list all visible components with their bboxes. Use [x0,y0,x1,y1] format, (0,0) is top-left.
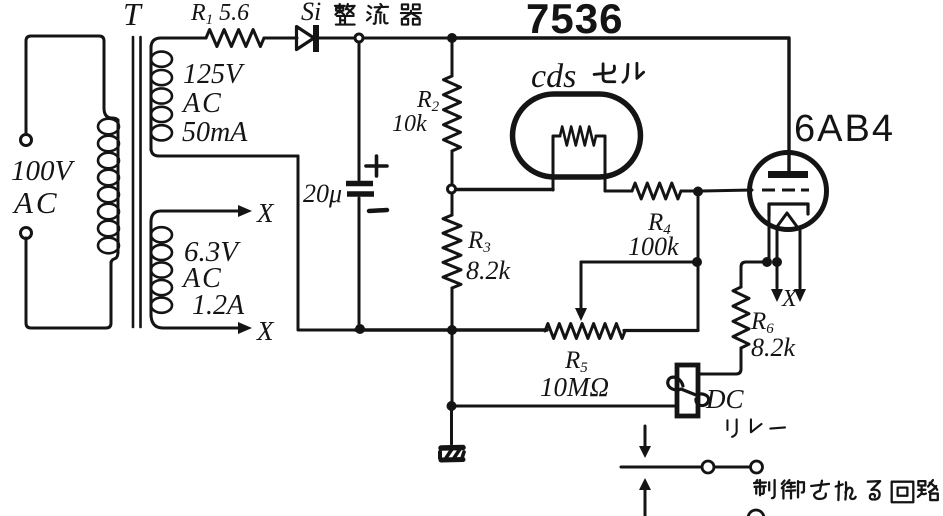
node C (divider) [448,185,456,193]
secondary 125V winding [151,52,172,67]
secondary 6.3V winding [151,227,172,242]
resistor R5 [545,324,625,339]
resistor R2 [444,76,461,151]
label + (C1) [366,156,387,176]
secondary 125V line [150,46,153,150]
svg-text:6AB4: 6AB4 [794,108,895,150]
wire nodeF down [697,196,700,330]
node D (cap bottom) [355,324,365,334]
contact circle 1 [702,461,714,473]
wire HV return drop [298,156,359,330]
secondary 125V bottom corner [151,148,298,156]
arrow X heater bottom [238,322,252,334]
label seiryuki (rectifier) [335,4,355,25]
wire bottom rail [355,328,547,331]
node A (cap tap) [355,34,363,42]
svg-text:T: T [123,0,143,32]
svg-text:DC: DC [705,384,744,414]
tube grid dashes [762,189,809,192]
arrow heater 2 [794,289,806,302]
label controlled circuit [754,480,775,498]
arrow X heater top [238,205,252,217]
wire R2-nodeC [451,151,454,184]
svg-text:X: X [256,198,275,228]
arrow wiper [575,308,587,321]
diode D1 Si [297,27,315,50]
cds resistor element [560,127,596,146]
svg-text:8.2k: 8.2k [751,333,796,362]
wire cathode-R6 [741,262,767,287]
wire R3-bottomrail [451,288,454,330]
svg-text:1.2A: 1.2A [192,290,245,321]
svg-text:X: X [781,286,798,312]
wire wiper run [581,261,693,264]
wire nodeF-grid [702,190,752,191]
label - (C1) [369,210,387,211]
resistor R1 [206,30,264,47]
svg-text:10MΩ: 10MΩ [540,372,609,402]
wire rail-ground node [451,330,454,406]
wire nodeB-plate corner [452,38,789,172]
resistor R4 [632,183,681,199]
secondary 6.3V bottom corner [151,314,238,328]
wire nodeA-cap [358,42,361,180]
terminal 100V-top [21,135,32,146]
wire cap-bottomrail [358,198,361,330]
tube heater lead 2 [799,228,802,288]
svg-text:Si: Si [301,0,321,26]
cds lead left [553,136,560,190]
label rire- (relay) [727,419,736,436]
arrow heater 1 [771,289,783,302]
arrow contact upper [644,426,647,448]
svg-text:100V: 100V [11,155,76,187]
primary winding P1 [98,119,119,135]
wire wiper drop [580,262,583,310]
node H (ground tap) [447,401,457,411]
svg-text:8.2k: 8.2k [466,256,511,285]
node J (cathode) [762,257,772,267]
secondary 125V top corner [151,38,206,48]
svg-text:7536: 7536 [526,0,623,42]
secondary 6.3V top corner [151,211,238,222]
svg-text:X: X [256,316,275,346]
svg-text:10k: 10k [392,111,427,137]
ground symbol [440,448,464,461]
svg-text:125V: 125V [183,59,245,90]
wire nodeC-cds [456,188,553,191]
node E (R3 bottom) [447,325,457,335]
node G (wiper join) [692,257,702,267]
cds lead right [596,136,605,191]
tube plate [768,171,808,178]
label seru (cell) [594,64,615,82]
wire R5-corner [624,329,698,332]
transformer T core [132,37,135,327]
resistor R3 [443,215,461,288]
svg-text:50mA: 50mA [182,117,248,148]
resistor R6 [733,287,749,348]
svg-text:20μ: 20μ [303,179,342,208]
wire R6-relay [698,348,741,374]
svg-text:R1 5.6: R1 5.6 [190,0,249,28]
tube V1 envelope [750,153,827,230]
wire primary loop top [26,36,104,135]
arrow contact lower [644,490,647,516]
tube heater lead 1 [776,228,779,288]
svg-text:cds: cds [531,58,576,95]
contact circle 2 [751,461,763,473]
svg-text:AC: AC [12,185,60,220]
wire nodeB-R2 [451,43,454,76]
wire ground stem [450,406,453,444]
cds cell envelope [513,94,641,177]
relay coil box [677,365,698,416]
contact circle 3 (cut) [748,510,764,516]
primary winding jog top [104,108,118,122]
tube heater [776,213,798,228]
wire nodeC-R3 [451,194,454,215]
primary winding jog bottom [111,252,118,264]
node F (grid) [693,187,703,197]
wire primary loop bottom [26,238,111,328]
svg-text:100k: 100k [628,232,679,261]
wire cds-R4 [605,190,632,193]
node B (R2 top) [447,33,457,43]
wire nodeA-nodeB [363,37,447,40]
secondary 6.3V line [150,222,153,316]
contact link [714,466,750,469]
tube cathode [769,204,808,216]
wire relay left [451,405,675,408]
contact arm [621,466,702,469]
wire R4-nodeF [681,190,694,193]
relay S-curve [668,377,709,405]
tube cathode lead [768,216,771,258]
wire R1-diode [264,37,297,40]
primary winding line [117,120,120,252]
terminal 100V-bottom [21,228,32,239]
wire diode-nodeA [317,37,354,40]
capacitor C1 20u plates [346,184,374,195]
svg-text:AC: AC [181,88,223,119]
